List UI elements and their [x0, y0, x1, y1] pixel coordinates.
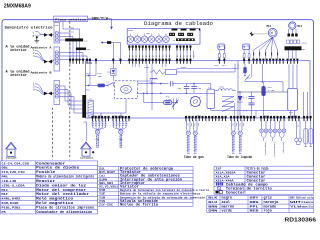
svg-text:interior: interior	[10, 48, 27, 53]
breaker switch K2	[105, 84, 108, 86]
relay contact MR4	[244, 73, 246, 75]
wire bus mid	[177, 71, 236, 73]
svg-text:GRY: GRY	[250, 197, 260, 200]
svg-text:12: 12	[173, 39, 176, 42]
LEDs LED1-LED5 LEDA	[127, 36, 133, 42]
svg-text:3: 3	[33, 55, 35, 58]
svg-text:INDOOR: INDOOR	[6, 157, 18, 160]
svg-text:GRN: GRN	[71, 27, 74, 30]
svg-text:S1PH: S1PH	[99, 178, 108, 181]
connector pins PCB top S201	[128, 59, 170, 64]
fuse F3U on branch	[143, 93, 145, 102]
wire GRN/YLW with down arrow	[88, 18, 91, 20]
svg-text:3: 3	[144, 33, 145, 35]
ribbon cable S201	[128, 51, 130, 59]
svg-text:Diodo emisor de luz: Diodo emisor de luz	[36, 183, 87, 188]
svg-text:Z1F: Z1F	[216, 167, 223, 170]
power module PM1	[288, 88, 298, 110]
svg-text:Y1E: Y1E	[99, 193, 106, 196]
svg-text:Núcleo de ferrita: Núcleo de ferrita	[120, 203, 159, 208]
compressor motor wires	[288, 29, 290, 33]
component plug 2	[243, 44, 250, 50]
PCB P2B1 display board	[127, 29, 200, 45]
solenoid valve wires Y1S	[296, 121, 298, 139]
svg-text:Reactor: Reactor	[36, 179, 56, 184]
svg-text:Placa de circuitos impresos: Placa de circuitos impresos	[36, 206, 95, 211]
fan blade symbol	[250, 31, 254, 36]
connector pins plugs	[218, 59, 220, 61]
svg-text:Serpentín de la válvula de sol: Serpentín de la válvula de solenoide de …	[120, 195, 205, 199]
svg-text:(Descarga): (Descarga)	[282, 142, 285, 154]
symbol field wiring	[216, 183, 223, 186]
svg-text:Condensador: Condensador	[36, 161, 66, 166]
svg-text:2: 2	[137, 33, 138, 35]
wire N to ferrite	[60, 36, 74, 38]
svg-text:Módulo de alimentación intelig: Módulo de alimentación inteligente	[36, 175, 94, 180]
connector pins P2B1 bottom row S201	[128, 45, 170, 50]
svg-text:SA1: SA1	[107, 70, 112, 73]
svg-text:Relé magnético: Relé magnético	[36, 201, 74, 206]
svg-text:azul cielo: azul cielo	[302, 196, 314, 200]
svg-text:L501: L501	[219, 86, 225, 89]
svg-text:RED: RED	[250, 210, 260, 213]
ferrite core Z3C	[76, 48, 86, 51]
svg-text:4: 4	[151, 33, 152, 35]
svg-text:Tubo de gas: Tubo de gas	[184, 155, 204, 159]
wire vertical mid right	[237, 61, 239, 118]
surge arrester SA1	[111, 69, 116, 76]
wire drops to bottom pins mid	[234, 103, 236, 118]
svg-text:Suministro eléctrico: Suministro eléctrico	[5, 26, 53, 31]
terminal block X1M power section	[54, 23, 60, 44]
svg-text:Y1S: Y1S	[99, 200, 106, 203]
svg-text:RD130366: RD130366	[285, 217, 317, 223]
svg-text:RED: RED	[190, 123, 192, 126]
wires room A to PCB	[60, 53, 84, 61]
wire bus lower left	[86, 112, 122, 114]
svg-text:Puente de diodos: Puente de diodos	[36, 166, 80, 171]
wires inside PCB left	[89, 64, 91, 86]
svg-text:M1C: M1C	[2, 189, 9, 192]
svg-text:Conmutador de alimentación: Conmutador de alimentación	[36, 210, 93, 215]
fuse F1U	[98, 84, 106, 88]
wire vertical right of DB1	[151, 81, 153, 110]
svg-text:interior: interior	[10, 73, 27, 78]
fan motor M1F	[268, 28, 277, 37]
svg-text:(Aspiración): (Aspiración)	[264, 142, 267, 156]
fan motor wire labels	[253, 52, 254, 55]
component plug 1	[218, 44, 225, 50]
svg-text:Motor del compresor: Motor del compresor	[36, 188, 87, 193]
connector bar left edge	[82, 95, 86, 118]
svg-text:N: N	[33, 35, 35, 38]
ground stub below N	[36, 36, 38, 38]
svg-text:(Condensador): (Condensador)	[273, 142, 276, 158]
symbol connector	[216, 191, 219, 194]
svg-text:K4M,K10R: K4M,K10R	[2, 202, 19, 205]
svg-text:3.15A: 3.15A	[268, 89, 275, 92]
svg-text:M1F: M1F	[267, 25, 272, 28]
connector row 2 in P2B1	[169, 33, 175, 36]
PCB P1B1 main board	[86, 61, 311, 118]
ferrite core Z2C	[65, 38, 83, 41]
svg-text:LED1~5,LEDA: LED1~5,LEDA	[2, 184, 25, 187]
svg-text:PS: PS	[2, 211, 7, 214]
connector row 1 in P2B1	[172, 29, 178, 31]
svg-text:Ambiente B: Ambiente B	[31, 70, 52, 74]
svg-text:3: 3	[33, 89, 35, 92]
diode bridge DB1 ellipse	[121, 85, 132, 93]
svg-text:verde: verde	[222, 209, 233, 213]
compressor motor M1C	[289, 22, 296, 29]
svg-text:X1M: X1M	[54, 24, 59, 27]
wire earth to ferrite	[60, 39, 77, 41]
svg-text:Tubo de líquido: Tubo de líquido	[227, 155, 252, 159]
svg-text:Fusible: Fusible	[36, 170, 56, 175]
connector pins PCB bottom X28A	[303, 116, 312, 121]
svg-text:K4R1,K4R2: K4R1,K4R2	[2, 198, 21, 201]
svg-text:SKY BLU: SKY BLU	[290, 197, 301, 200]
svg-text:RED: RED	[242, 123, 244, 126]
diode D1	[238, 96, 243, 102]
plate label Placa metalica	[54, 16, 88, 21]
connector pins PCB top left group	[69, 59, 71, 61]
resistor and relay top mid	[150, 70, 166, 74]
svg-text:WHT: WHT	[290, 201, 302, 204]
svg-text:P1B1,P2B1: P1B1,P2B1	[2, 207, 21, 210]
svg-text:BLU: BLU	[71, 30, 74, 33]
svg-text:K2: K2	[107, 80, 110, 83]
svg-text:Motor del ventilador: Motor del ventilador	[36, 192, 90, 197]
svg-text:20A: 20A	[98, 75, 103, 78]
svg-text:1: 1	[130, 33, 131, 35]
svg-text:A: A	[165, 32, 167, 35]
ribbon cable S202	[176, 51, 178, 59]
svg-text:OUTDOOR: OUTDOOR	[80, 157, 94, 160]
svg-text:L1R~L4R: L1R~L4R	[2, 180, 17, 183]
legend table right block	[214, 165, 314, 167]
svg-text:P2B1: P2B1	[128, 29, 134, 32]
svg-text:AL1: AL1	[222, 64, 227, 67]
terminal block X1M room B section	[54, 81, 60, 105]
wire DB1 to bus top	[137, 83, 168, 85]
svg-text:240: 240	[83, 120, 87, 123]
svg-text:BLK: BLK	[208, 197, 218, 200]
terminal block X1M room A section	[54, 47, 60, 71]
symbol screw terminal	[217, 187, 221, 191]
svg-text:MR4: MR4	[247, 77, 251, 80]
svg-text:Conector: Conector	[226, 190, 245, 195]
svg-text:BLU: BLU	[208, 201, 218, 204]
expansion valve wires Y1E	[92, 121, 94, 128]
main diagram border	[2, 20, 314, 167]
svg-text:C58: C58	[198, 87, 202, 90]
wires M1C to PCB	[288, 50, 290, 58]
wire DB1 to bus bottom	[137, 92, 215, 94]
svg-text:Y1R: Y1R	[99, 196, 106, 199]
inductor coil top	[150, 78, 157, 79]
svg-text:blanco: blanco	[302, 200, 314, 204]
svg-text:Z2C: Z2C	[84, 39, 88, 42]
protective earth indoor	[6, 142, 17, 149]
svg-text:SW1,SW4: SW1,SW4	[99, 182, 114, 185]
wire bus y82	[245, 81, 283, 83]
motor symbol PS	[190, 97, 200, 107]
svg-text:X11A: X11A	[302, 42, 308, 45]
svg-text:YLW: YLW	[290, 205, 302, 208]
svg-text:X1A,X3A: X1A,X3A	[216, 175, 231, 178]
svg-text:4R1-0: 4R1-0	[150, 81, 157, 84]
svg-text:amarillo: amarillo	[302, 204, 314, 208]
thermistor wires suction discharge	[261, 121, 263, 129]
svg-text:(a): (a)	[99, 174, 106, 178]
wire plate earth	[62, 22, 64, 30]
connector M1C terminals	[288, 34, 291, 37]
svg-text:M: M	[271, 32, 273, 35]
svg-text:GRN: GRN	[208, 210, 218, 213]
protective earth outdoor	[81, 142, 92, 149]
legend table middle block	[98, 166, 193, 168]
svg-text:M1C: M1C	[298, 25, 303, 28]
boundary dash-dot line (metal plate)	[69, 21, 71, 159]
svg-text:(-): (-)	[243, 109, 247, 112]
svg-text:PM1: PM1	[2, 176, 9, 179]
ferrite bar Z5C	[285, 46, 302, 50]
wire Z1C to PM1	[210, 109, 212, 111]
connector pins P2B1 bottom row S202	[176, 45, 192, 50]
pressure switch S1PH connectors	[305, 121, 307, 129]
capacitor bank C1-C4	[251, 92, 253, 97]
svg-text:5: 5	[158, 33, 159, 35]
svg-text:HL1: HL1	[86, 72, 91, 75]
svg-text:Z3C: Z3C	[87, 48, 91, 51]
svg-text:R1T,R10T: R1T,R10T	[99, 171, 116, 174]
svg-text:Diagrama de cableado: Diagrama de cableado	[144, 20, 213, 27]
svg-text:X11A,X802A: X11A,X802A	[216, 171, 237, 174]
capacitor on bus	[170, 81, 172, 86]
svg-text:(+): (+)	[243, 96, 247, 99]
fan motor wires 5x	[254, 37, 273, 58]
svg-text:Relé magnético: Relé magnético	[36, 197, 74, 202]
svg-text:ORG: ORG	[250, 201, 260, 204]
legend table left block	[1, 160, 98, 162]
svg-text:DB1: DB1	[2, 167, 9, 170]
svg-text:PPL: PPL	[250, 205, 260, 208]
svg-text:V2,V3,V501: V2,V3,V501	[99, 186, 119, 189]
svg-text:2MXM68A9: 2MXM68A9	[4, 3, 31, 9]
connector X11A blocks	[287, 40, 290, 43]
wires M1C to PM1	[288, 65, 290, 89]
connector pins M1C to PCB	[286, 59, 298, 64]
svg-text:C1~C4,C54,C58: C1~C4,C54,C58	[2, 162, 30, 165]
svg-text:S1L: S1L	[99, 167, 106, 170]
svg-text:HN1: HN1	[86, 89, 91, 92]
wires room B to reactor input	[60, 86, 83, 101]
thermistor wires gas pipe R2T R3T	[186, 121, 188, 130]
svg-text:Y1S: Y1S	[296, 124, 298, 127]
svg-text:BRN: BRN	[208, 205, 218, 208]
svg-text:RED: RED	[197, 123, 199, 126]
svg-text:AL3: AL3	[215, 64, 220, 67]
svg-text:M1F: M1F	[2, 193, 9, 196]
svg-text:RED: RED	[235, 123, 237, 126]
svg-text:Z5C: Z5C	[302, 48, 307, 51]
pin number marks S201	[128, 55, 131, 57]
svg-text:X21A~X40A: X21A~X40A	[216, 179, 235, 182]
svg-text:F1U,F2U,F3U: F1U,F2U,F3U	[2, 171, 25, 174]
svg-text:GRN/YLW: GRN/YLW	[92, 16, 109, 20]
node dots	[160, 83, 162, 85]
legend color code table	[207, 195, 314, 197]
wire L to ferrite	[60, 32, 71, 34]
earth wire to outdoor ground	[86, 122, 88, 142]
wire bus plus	[237, 91, 288, 93]
switch symbol S2	[173, 99, 175, 103]
connector pins PCB top S202	[176, 59, 192, 64]
wires PM1 to pins	[290, 110, 292, 118]
connector pins fan motor	[252, 59, 284, 64]
svg-text:Placa metálica: Placa metálica	[55, 17, 86, 21]
svg-text:C54: C54	[178, 87, 182, 90]
expansion valve wires Y3E	[112, 121, 114, 128]
thermistor wires liquid pipe R1T R4T	[231, 121, 233, 130]
fuse pill under plug 2	[243, 67, 246, 73]
pin number marks S202	[176, 55, 179, 57]
wire with plug to pins X	[101, 41, 103, 43]
wires right edge vertical	[303, 92, 305, 118]
diode bridge DB1 dashed outline	[115, 81, 138, 99]
wire drops from S201 pins	[146, 64, 148, 94]
svg-text:X1M: X1M	[99, 189, 106, 192]
svg-text:rojo: rojo	[264, 209, 272, 213]
svg-text:Z1C~Z5C: Z1C~Z5C	[99, 204, 114, 207]
resistor R501 zigzag	[222, 97, 234, 112]
